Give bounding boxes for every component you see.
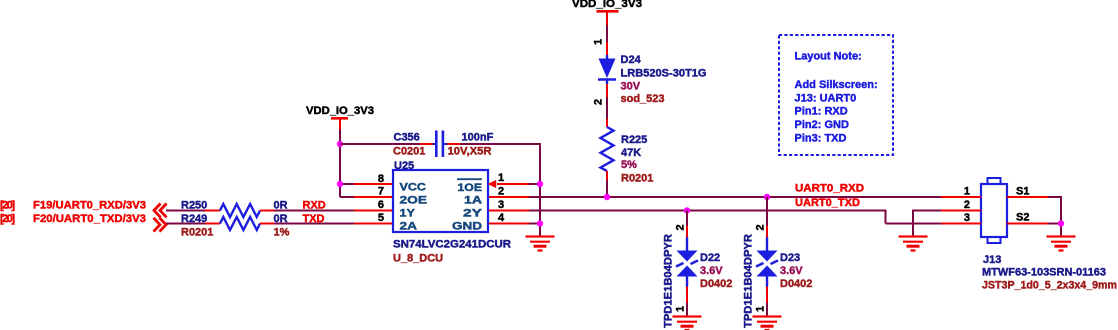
svg-text:Pin2: GND: Pin2: GND [795, 119, 849, 131]
ground below D22 [673, 317, 702, 330]
svg-text:JST3P_1d0_5_2x3x4_9mm: JST3P_1d0_5_2x3x4_9mm [982, 280, 1117, 292]
svg-text:S1: S1 [1016, 186, 1029, 198]
svg-text:D0402: D0402 [780, 278, 812, 290]
svg-text:Pin1: RXD: Pin1: RXD [795, 106, 848, 118]
pin 7 2OE [354, 186, 392, 198]
svg-text:S2: S2 [1016, 212, 1029, 224]
ground below D23 [753, 317, 782, 330]
svg-text:J13: J13 [983, 254, 1001, 266]
svg-text:R249: R249 [181, 213, 207, 225]
svg-text:R225: R225 [621, 134, 647, 146]
diode D22 TPD1E1B04DPYR [663, 224, 733, 328]
svg-text:2OE: 2OE [400, 195, 428, 207]
svg-text:2A: 2A [400, 221, 418, 233]
wire VDD left vertical [340, 130, 354, 198]
resistor R250 0R [181, 200, 288, 218]
svg-text:30V: 30V [621, 81, 641, 93]
J13 shield pin S1 [1007, 186, 1061, 198]
svg-text:MTWF63-103SRN-01163: MTWF63-103SRN-01163 [982, 267, 1106, 279]
wire 2Y row (UART0_TXD net) [529, 210, 941, 224]
svg-text:1Y: 1Y [400, 208, 416, 220]
svg-text:[20]: [20] [0, 213, 15, 225]
wire R225 to RXD net [606, 180, 608, 197]
pin 6 1Y [354, 199, 392, 211]
pin 3 2Y [489, 199, 529, 211]
junction D23/RXD [764, 194, 770, 200]
value label R0201 1% [181, 227, 290, 239]
svg-text:6: 6 [378, 199, 384, 211]
svg-text:VCC: VCC [400, 182, 427, 194]
pin 4 GND [489, 212, 540, 224]
junction at pin8 branch [337, 181, 343, 187]
wire D22 to ground [686, 303, 688, 316]
op-amp U25 buffer SN74LVC2G241DCUR [393, 160, 511, 265]
svg-text:VDD_IO_3V3: VDD_IO_3V3 [306, 105, 374, 117]
svg-text:1%: 1% [274, 227, 290, 239]
svg-text:2: 2 [964, 199, 970, 211]
wire R250 to U25 pin6 [274, 210, 354, 212]
svg-text:2Y: 2Y [463, 207, 483, 219]
svg-text:3: 3 [964, 212, 970, 224]
J13 pin 1 [941, 186, 981, 198]
svg-text:[20]: [20] [0, 200, 15, 212]
wire VDD to C356 [340, 143, 434, 145]
svg-text:1: 1 [498, 172, 504, 184]
wire R249 to U25 pin5 [274, 223, 354, 225]
junction pin4 to vertical [537, 220, 543, 226]
svg-text:UART0_RXD: UART0_RXD [795, 183, 864, 195]
svg-text:3.6V: 3.6V [700, 265, 723, 277]
power symbol VDD_IO_3V3 (top) [572, 0, 642, 25]
svg-text:3.6V: 3.6V [780, 265, 803, 277]
svg-text:D24: D24 [621, 54, 642, 66]
svg-text:7: 7 [378, 186, 384, 198]
svg-text:2: 2 [593, 99, 605, 105]
J13 shield pin S2 [1007, 212, 1061, 224]
svg-text:F19/UART0_RXD/3V3: F19/UART0_RXD/3V3 [33, 200, 146, 212]
node F20/UART0_TXD/3V3 off-page label [0, 213, 146, 225]
svg-text:LRB520S-30T1G: LRB520S-30T1G [621, 68, 707, 80]
svg-text:10V,X5R: 10V,X5R [448, 145, 492, 157]
ground below S1/S2 [1047, 237, 1076, 251]
node F19/UART0_RXD/3V3 off-page label [0, 200, 146, 212]
layout note box [779, 35, 893, 155]
svg-text:D23: D23 [780, 252, 800, 264]
svg-text:Add Silkscreen:: Add Silkscreen: [795, 79, 878, 91]
pin 8 VCC [354, 173, 392, 185]
svg-text:8: 8 [378, 173, 384, 185]
svg-text:C356: C356 [394, 131, 420, 143]
svg-text:D0402: D0402 [700, 278, 732, 290]
svg-text:2: 2 [498, 186, 504, 198]
off-page connector chevron TXD [154, 218, 167, 232]
pin 1 1OE with input arrow [488, 172, 540, 188]
resistor R249 0R [181, 213, 288, 230]
ground below J13 pin2 [899, 237, 928, 251]
off-page connector chevron RXD [154, 204, 167, 218]
wire RXD chevron to R250 [166, 210, 205, 212]
svg-text:3: 3 [498, 199, 504, 211]
junction pin1 to vertical [537, 181, 543, 187]
svg-text:U25: U25 [394, 160, 414, 172]
wire D23 to ground [766, 303, 768, 316]
pin 5 2A [354, 212, 392, 224]
svg-text:1OE: 1OE [458, 182, 483, 194]
svg-text:5: 5 [378, 212, 384, 224]
svg-text:U_8_DCU: U_8_DCU [393, 253, 443, 265]
J13 pin 2 [941, 199, 981, 211]
wire RXD to D23 [766, 197, 768, 226]
svg-text:VDD_IO_3V3: VDD_IO_3V3 [572, 0, 642, 10]
power symbol VDD_IO_3V3 (left) [306, 105, 374, 130]
svg-text:SN74LVC2G241DCUR: SN74LVC2G241DCUR [393, 239, 511, 251]
diode D24 LRB520S-30T1G [593, 39, 707, 105]
svg-text:47K: 47K [621, 147, 641, 159]
svg-text:UART0_TXD: UART0_TXD [795, 197, 860, 209]
svg-text:Pin3: TXD: Pin3: TXD [795, 133, 847, 145]
wire D24 to R225 [606, 97, 608, 119]
svg-text:R0201: R0201 [181, 227, 213, 239]
diode D23 TPD1E1B04DPYR [743, 224, 813, 328]
svg-text:1: 1 [755, 306, 767, 312]
wire VDD to D24 [606, 25, 608, 42]
svg-text:TPD1E1B04DPYR: TPD1E1B04DPYR [663, 234, 675, 328]
svg-text:Layout Note:: Layout Note: [795, 51, 862, 63]
svg-text:D22: D22 [700, 252, 720, 264]
wire J13 pin2 to ground [913, 210, 941, 236]
junction D22/TXD [684, 207, 690, 213]
junction S2 [1058, 220, 1064, 226]
svg-text:J13: UART0: J13: UART0 [795, 93, 857, 105]
svg-text:sod_523: sod_523 [621, 93, 665, 105]
svg-text:2: 2 [675, 224, 687, 230]
svg-text:1: 1 [964, 186, 970, 198]
wire TXD to D22 [686, 211, 688, 227]
svg-text:F20/UART0_TXD/3V3: F20/UART0_TXD/3V3 [33, 213, 146, 225]
svg-text:2: 2 [755, 224, 767, 230]
junction at VDD branch [337, 141, 343, 147]
ground below U25 [526, 237, 555, 251]
svg-text:C0201: C0201 [393, 145, 425, 157]
wire 1A row (UART0_RXD net) [529, 196, 941, 198]
svg-text:1A: 1A [464, 194, 482, 206]
svg-text:100nF: 100nF [462, 131, 494, 143]
svg-text:R250: R250 [181, 200, 207, 212]
capacitor C356 100nF [393, 131, 494, 158]
svg-text:GND: GND [452, 220, 482, 232]
wire C356 to right vertical [447, 143, 540, 236]
svg-text:TPD1E1B04DPYR: TPD1E1B04DPYR [743, 234, 755, 328]
J13 pin 3 [941, 212, 981, 224]
wire TXD chevron to R249 [166, 223, 205, 225]
svg-text:1: 1 [675, 306, 687, 312]
pin 2 1A [489, 186, 529, 198]
junction R225/RXD [604, 194, 610, 200]
connector J13 MTWF63-103SRN-01163 [981, 178, 1117, 292]
svg-text:4: 4 [498, 212, 505, 224]
svg-text:R0201: R0201 [621, 172, 653, 184]
svg-text:1: 1 [593, 39, 605, 45]
resistor R225 47K [601, 119, 654, 184]
wire S1/S2 to ground [1060, 196, 1062, 236]
svg-text:5%: 5% [621, 159, 637, 171]
